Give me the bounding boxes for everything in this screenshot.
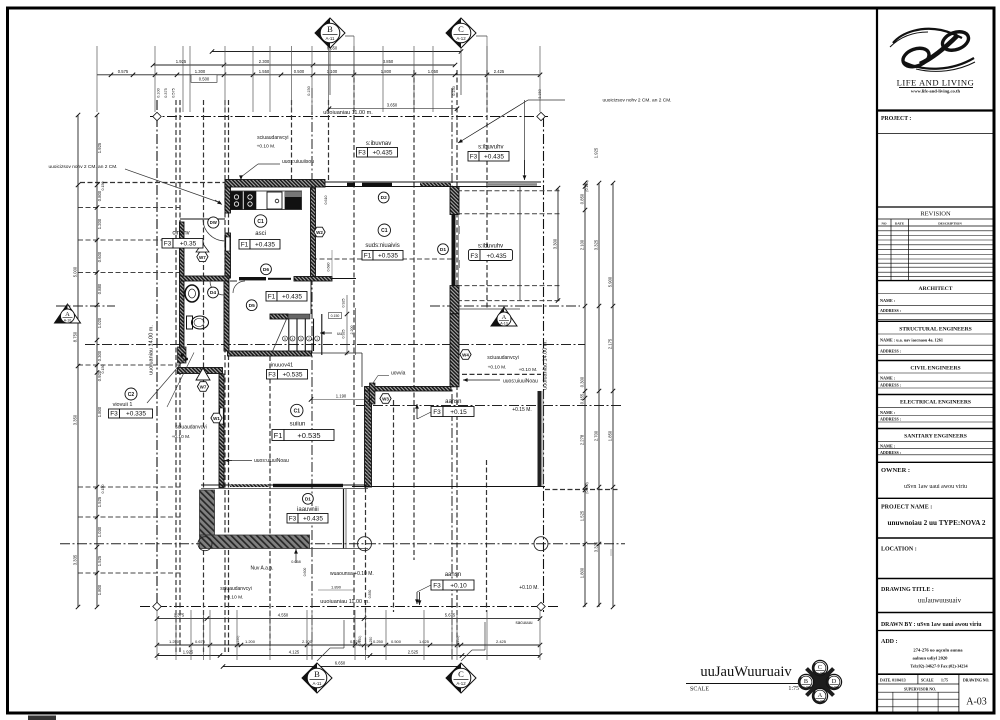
terrace bottom edge line [310,548,369,550]
svg-text:s:ibuvuhv: s:ibuvuhv [478,145,503,151]
triangle vent below toilet [196,368,210,380]
svg-text:1.925: 1.925 [183,650,194,655]
svg-text:0.500: 0.500 [199,77,210,82]
svg-text:3.850: 3.850 [383,59,394,64]
toilet WC [187,316,193,329]
svg-text:2.700: 2.700 [594,430,599,441]
svg-text:+0.435: +0.435 [282,293,302,300]
svg-text:6.650: 6.650 [335,661,346,666]
svg-text:uuoiuaniau 11.00 m.: uuoiuaniau 11.00 m. [320,599,370,605]
svg-text:DRAWING NO.: DRAWING NO. [963,679,989,683]
svg-text:viovuii 1: viovuii 1 [113,402,133,408]
svg-text:F3: F3 [358,149,366,156]
svg-text:B: B [327,24,333,34]
svg-text:D2: D2 [381,195,387,201]
svg-text:s:ibuvuhv: s:ibuvuhv [478,244,503,250]
svg-text:1.925: 1.925 [176,59,187,64]
stair dims [346,295,348,355]
dim 3.650 top [329,108,457,110]
svg-text:0.455: 0.455 [580,393,585,404]
svg-text:+0.335: +0.335 [126,410,146,417]
washroom left wall [180,222,185,278]
svg-text:F3: F3 [433,409,441,416]
svg-text:CIVIL ENGINEERS: CIVIL ENGINEERS [910,366,960,372]
top dimension row 6.650 [212,51,461,53]
svg-text:1.890: 1.890 [331,585,342,590]
toilet floor drain [181,353,185,357]
svg-text:1.800: 1.800 [97,406,102,417]
svg-text:uuos:uiuuiNoau: uuos:uiuuiNoau [503,379,538,385]
top extension verticals [96,46,98,112]
svg-text:1.300: 1.300 [195,69,206,74]
svg-text:1.190: 1.190 [336,394,347,399]
grid line C vertical pair [451,88,453,660]
top wall hatch segment right [420,183,451,186]
svg-text:SANITARY ENGINEERS: SANITARY ENGINEERS [904,434,967,440]
svg-text:SCALE: SCALE [921,679,934,683]
garage top wall [365,387,452,392]
grid line vertical x393 garage [393,400,395,612]
svg-text:0.880: 0.880 [97,283,102,294]
svg-text:LIFE AND LIVING: LIFE AND LIVING [897,78,975,88]
svg-text:+0.10 M.: +0.10 M. [225,595,244,601]
door tag D5 [246,300,257,311]
svg-text:C2: C2 [128,392,135,398]
svg-text:ADDRESS :: ADDRESS : [880,450,901,455]
svg-text:W1: W1 [213,416,220,421]
svg-text:C1: C1 [257,219,264,225]
top dimension row segments [97,74,540,76]
svg-text:W4: W4 [462,353,469,358]
east wall sliding door D1 dark leaf [452,215,456,286]
svg-text:1.525: 1.525 [97,555,102,566]
terrace right wall [343,489,345,549]
svg-text:0.375: 0.375 [164,88,168,98]
svg-text:C: C [458,24,464,34]
svg-text:unuwnoiau 2 uu TYPE:NOVA 2: unuwnoiau 2 uu TYPE:NOVA 2 [887,519,985,527]
svg-text:1.525: 1.525 [580,510,585,521]
svg-text:3.325: 3.325 [594,239,599,250]
svg-text:SCALE: SCALE [690,687,709,693]
svg-text:1.850: 1.850 [608,430,613,441]
svg-text:2.278: 2.278 [580,434,585,445]
svg-text:ADD :: ADD : [881,639,898,645]
svg-text:NAME : u.a. uav iaecnaou 4a.: NAME : u.a. uav iaecnaou 4a. 1261 [880,338,943,343]
grid centerline y344.5 [85,344,585,346]
svg-text:1.200: 1.200 [97,218,102,229]
garage front edge [352,486,545,488]
svg-text:W7: W7 [200,385,207,390]
window D2 dark segment top wall [362,183,392,186]
stair up arrow [320,332,332,334]
svg-text:DRAWN BY : uSvn 1aw uaui aw: DRAWN BY : uSvn 1aw uaui awou viriu [881,622,982,628]
svg-text:+0.15 M.: +0.15 M. [512,407,532,413]
column circle left [198,537,212,551]
title block divider [876,8,878,713]
svg-text:0.600: 0.600 [97,251,102,262]
living room right edge line [361,353,363,387]
svg-text:A-12: A-12 [456,681,466,686]
left dimension column inner [96,115,98,607]
svg-text:W7: W7 [199,255,206,260]
svg-text:1.800: 1.800 [580,567,585,578]
property line right [543,117,545,612]
svg-text:0.150: 0.150 [307,86,311,96]
top dimension row 1.925/2.300/3.850 [153,64,455,66]
property line top [150,116,548,118]
svg-text:3.325: 3.325 [594,541,599,552]
hall partition lines [230,280,237,282]
garage left wall [365,391,372,487]
svg-text:F1: F1 [364,252,372,259]
svg-text:aansn: aansn [445,572,461,578]
revision empty rows [877,230,994,232]
door tag D1 terrace [303,493,314,504]
svg-text:0.100: 0.100 [157,88,161,98]
svg-text:W3: W3 [382,397,389,402]
svg-text:1:75: 1:75 [788,686,799,692]
compass rosette [807,669,833,695]
right porch dim 3.300 [557,188,559,301]
property line left [156,100,158,607]
svg-text:uuoiuaniau 11.00 m.: uuoiuaniau 11.00 m. [323,110,373,116]
svg-text:F1: F1 [241,241,249,248]
living south wall / terrace top [201,484,368,486]
svg-text:ADDRESS :: ADDRESS : [880,308,901,313]
grid short horizontals right porch [457,190,560,192]
svg-text:2.200: 2.200 [350,326,354,335]
garage right wall dark [538,391,542,487]
svg-text:NO: NO [881,222,886,226]
window tag W3 [380,394,391,404]
drawing title underline [686,683,799,685]
window tag W7 washroom [197,252,208,262]
grid centerline y543.7 with columns [60,543,625,545]
svg-text:+0.435: +0.435 [484,153,504,160]
kitchen stove burners [231,192,243,210]
washroom top line and door DW [180,218,225,220]
svg-text:0.150: 0.150 [331,314,340,318]
stair step numbers [283,336,288,341]
svg-text:1.030: 1.030 [97,526,102,537]
window tag W7 lower [197,382,208,392]
svg-text:5.000: 5.000 [73,266,78,277]
kitchen bottom wall and door D6 [239,277,266,280]
svg-text:DW: DW [210,220,217,225]
window tag W4 [460,350,471,360]
svg-text:W2: W2 [316,230,323,235]
svg-text:A-12: A-12 [456,36,466,41]
left dimension column outer [77,115,79,607]
svg-text:C: C [458,669,464,679]
door tag D2 [378,192,389,203]
grid bubble A-10 right [491,307,517,326]
svg-text:A-03: A-03 [831,685,837,689]
svg-text:OWNER :: OWNER : [881,467,910,474]
svg-text:D6: D6 [263,267,269,273]
svg-text:s:ibuvnav: s:ibuvnav [366,141,391,147]
svg-text:+0.435: +0.435 [372,149,392,156]
svg-text:0.300: 0.300 [580,376,585,387]
svg-text:0.675: 0.675 [195,639,206,644]
door tag D6 [261,264,272,275]
grid bubble B bottom [302,663,332,693]
terrace bottom gray wall [200,535,310,549]
door tag D1 east [438,244,449,255]
door tag D4 [208,287,219,298]
svg-text:D5: D5 [249,303,255,309]
svg-text:LOCATION :: LOCATION : [881,547,917,553]
svg-text:1.200: 1.200 [245,639,256,644]
logo swirl [890,28,975,71]
svg-text:ADDRESS :: ADDRESS : [880,349,901,354]
svg-text:NAME :: NAME : [880,444,896,449]
bottom dimension row segments [157,644,540,646]
right dimension column c [612,183,614,607]
down arrow to property line [419,592,421,605]
svg-text:A-03: A-03 [817,699,823,703]
svg-text:+0.10 M.: +0.10 M. [519,367,538,373]
svg-text:F3: F3 [470,253,478,260]
svg-text:A: A [502,314,507,321]
svg-text:iaauvniii: iaauvniii [297,507,319,513]
garage interior dashed horizontal [462,373,541,375]
grid bubble B top [315,18,345,48]
svg-text:B: B [314,669,320,679]
svg-text:+0.15: +0.15 [450,409,467,416]
svg-text:(0.150): (0.150) [456,636,460,647]
svg-text:aansn: aansn [445,399,461,405]
svg-text:0.850: 0.850 [368,590,372,599]
svg-text:2.300: 2.300 [259,59,270,64]
svg-text:1.925: 1.925 [594,147,599,158]
svg-text:A-03: A-03 [966,697,987,708]
bottom extension verticals [156,610,158,660]
svg-text:asci: asci [255,231,266,237]
grid line A horizontal [56,305,115,307]
svg-text:+0.435: +0.435 [486,253,506,260]
kitchen left wall upper [225,187,231,213]
terrace left gray wall [200,490,215,535]
bottom dimension row 3 [157,655,540,657]
svg-text:0.925: 0.925 [342,299,346,308]
svg-text:A-11: A-11 [313,681,323,686]
svg-text:ADDRESS :: ADDRESS : [880,383,901,388]
svg-text:+0.535: +0.535 [378,252,398,259]
stair side rail [310,280,312,314]
svg-text:2.525: 2.525 [408,650,419,655]
svg-text:3.335: 3.335 [73,554,78,565]
svg-text:+0.10 M.: +0.10 M. [519,585,539,591]
svg-text:+0.35: +0.35 [180,240,197,247]
grid line vertical x354 [353,70,355,648]
svg-text:1.375: 1.375 [174,613,185,618]
svg-text:uuJauwuusuaiv: uuJauwuusuaiv [918,597,962,605]
svg-text:www.life-and-living.co.th: www.life-and-living.co.th [911,89,961,94]
svg-text:0.150: 0.150 [101,365,105,374]
svg-text:A-03: A-03 [803,685,809,689]
svg-text:+0.10 M.: +0.10 M. [257,144,276,150]
grid line vertical x414 [413,70,415,560]
svg-text:0.300: 0.300 [97,350,102,361]
svg-text:0.058: 0.058 [291,560,301,564]
svg-text:3: 3 [300,337,302,341]
grid line vertical x487 [486,70,488,310]
svg-text:0.150: 0.150 [101,485,105,494]
svg-text:NAME :: NAME : [880,298,896,303]
svg-text:1.800: 1.800 [97,584,102,595]
svg-text:1: 1 [316,337,318,341]
svg-text:sacuuuu: sacuuuu [515,620,533,625]
svg-text:cinahv: cinahv [172,231,189,237]
svg-text:0.500: 0.500 [294,69,305,74]
svg-text:ELECTRICAL ENGINEERS: ELECTRICAL ENGINEERS [900,400,971,406]
grid line horizontal y182 left stub [80,182,228,184]
svg-text:STRUCTURAL ENGINEERS: STRUCTURAL ENGINEERS [899,327,972,333]
bottom dimension row 1 [157,618,540,620]
svg-text:4.550: 4.550 [278,613,289,618]
door arc D5 [233,281,245,293]
svg-text:F3: F3 [470,153,478,160]
kitchen counter line [230,190,302,192]
svg-text:A-11: A-11 [326,36,336,41]
svg-text:ARCHITECT: ARCHITECT [919,286,953,292]
stair top wall [270,314,288,319]
living room left wall [219,374,224,488]
room bubble C1 living [291,404,303,416]
svg-text:uuoicizsov nohv 2 CM. an 2 CM.: uuoicizsov nohv 2 CM. an 2 CM. [602,98,671,104]
svg-text:1.925: 1.925 [97,142,102,153]
svg-text:0.680: 0.680 [327,263,331,272]
svg-text:1.800: 1.800 [381,69,392,74]
svg-text:A: A [65,311,70,318]
wall top thin run [325,181,541,183]
grid bubble A-10 left [55,304,81,323]
wall top main hatched [225,180,325,188]
svg-text:PROJECT NAME :: PROJECT NAME : [881,505,932,511]
svg-text:2.175: 2.175 [608,338,613,349]
svg-text:1.250: 1.250 [169,639,180,644]
svg-text:uuoiuaniau 14.00 m.: uuoiuaniau 14.00 m. [543,340,549,390]
svg-text:NAME :: NAME : [880,376,896,381]
svg-text:2.100: 2.100 [580,239,585,250]
svg-text:3.650: 3.650 [387,103,398,108]
toilet bottom wall horizontal [178,368,223,374]
svg-text:F3: F3 [268,371,276,378]
svg-text:ADDRESS :: ADDRESS : [880,417,901,422]
svg-text:Nuv A.a.a.: Nuv A.a.a. [250,566,273,572]
svg-text:C1: C1 [381,228,388,234]
property corner node top-left [153,112,161,120]
svg-text:0.575: 0.575 [172,88,176,98]
grid line B vertical [311,88,313,660]
grid short horizontal dining [312,258,455,260]
room bubble C2 bath [125,388,137,400]
grid line vertical x328 [328,100,330,180]
svg-text:+0.535: +0.535 [297,431,320,440]
svg-text:A-03: A-03 [817,671,823,675]
property corner node bottom-left [153,602,161,610]
svg-text:0.850: 0.850 [580,193,585,204]
kitchen left wall lower with window [225,233,231,278]
svg-text:aalnun udiyl 2020: aalnun udiyl 2020 [913,656,949,661]
svg-text:DATE: DATE [895,222,905,226]
grid centerline y405.5 garage [356,405,622,407]
door arc D4 [210,281,224,295]
svg-text:(0.150): (0.150) [585,482,589,493]
svg-text:DRAWING TITLE :: DRAWING TITLE : [881,587,934,593]
svg-text:1.625: 1.625 [419,639,430,644]
column circle middle [358,537,372,551]
svg-text:4: 4 [292,337,294,341]
window tag W2 [314,227,325,237]
door tag DW [208,217,219,228]
svg-text:uuoiuaniau 14.00 m.: uuoiuaniau 14.00 m. [149,325,155,375]
svg-text:sciuaudanvcyi: sciuaudanvcyi [257,135,288,141]
porch east edge line [519,187,521,301]
grid line vertical x203 [203,100,205,652]
svg-text:F1: F1 [268,293,276,300]
svg-text:sciuaudanvcyi: sciuaudanvcyi [487,355,518,361]
property corner node top-right [537,112,545,120]
svg-text:5.900: 5.900 [608,276,613,287]
svg-text:F3: F3 [433,582,441,589]
svg-text:0.500: 0.500 [391,639,402,644]
svg-text:+0.10 M.: +0.10 M. [488,365,507,371]
stair cut diagonal [272,319,286,352]
svg-text:+0.435: +0.435 [303,515,323,522]
stair bottom wall [228,351,312,356]
kitchen refrigerator dark box [285,192,302,209]
svg-text:+0.435: +0.435 [255,241,275,248]
svg-text:A-10: A-10 [500,322,508,326]
east wall dining upper [450,187,459,215]
svg-text:+0.10: +0.10 [450,582,467,589]
svg-text:2.100: 2.100 [302,639,313,644]
svg-text:8.750: 8.750 [73,331,78,342]
svg-text:3.300: 3.300 [553,238,558,249]
grid bubble C bottom [446,663,476,693]
svg-text:D1: D1 [305,497,311,503]
svg-text:uuos:uiuuiNoau: uuos:uiuuiNoau [254,458,289,464]
svg-text:+0.10 M.: +0.10 M. [172,434,191,440]
window tag W1 [211,413,222,423]
grid line vertical x225 pair [224,100,226,652]
svg-text:uuos:uiuuiisou: uuos:uiuuiisou [282,159,314,165]
svg-text:(0.150): (0.150) [358,636,362,647]
kitchen right wall [311,188,316,278]
washroom triangle vent [196,243,209,252]
east wall to garage corner [450,314,459,387]
svg-text:uuJauWuuruaiv: uuJauWuuruaiv [700,664,792,680]
svg-text:wuaounsa +0.10 M.: wuaounsa +0.10 M. [330,571,374,577]
grid line vertical x365 garage [365,390,367,650]
property line bottom [140,606,560,608]
svg-text:4.125: 4.125 [289,650,300,655]
bath1 label leader [147,360,184,403]
concrete floor edge lines [367,391,369,485]
svg-text:sciuaudanvcyi: sciuaudanvcyi [175,425,206,431]
toilet-stair wall [224,281,229,351]
svg-text:F3: F3 [164,240,172,247]
toilet bottom-left dark block [178,347,187,363]
toilet left wall [180,281,185,351]
top dimension row 0.500 boxed [191,75,217,83]
column circle right [534,537,548,551]
room bubble C1 kitchen [254,215,266,227]
toilet wash basin [185,285,199,302]
svg-text:3.350: 3.350 [73,414,78,425]
